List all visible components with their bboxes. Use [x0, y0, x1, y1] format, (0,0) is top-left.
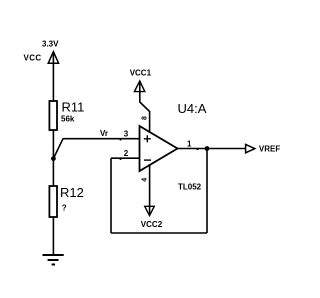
wire diagonal node to Vr: [53, 139, 63, 159]
pin 2 endpoint: [120, 158, 122, 160]
op-amp U4:A: [140, 126, 178, 171]
wire feedback left vertical: [110, 158, 112, 233]
resistor R12: [49, 186, 57, 217]
wire feedback right vertical: [206, 149, 208, 234]
pin 1 endpoint: [197, 148, 199, 150]
wire Vr to pin 3: [63, 138, 140, 140]
wire R11 to node: [52, 130, 54, 186]
svg-text:VCC: VCC: [24, 54, 42, 63]
svg-text:R11: R11: [62, 100, 85, 115]
svg-text:Vr: Vr: [100, 129, 108, 138]
wire R12 to ground: [52, 217, 54, 255]
svg-text:VREF: VREF: [259, 145, 280, 154]
plus sign: [144, 138, 151, 140]
wire to pin 2: [111, 157, 140, 159]
svg-text:3: 3: [124, 130, 129, 139]
node junction dot: [51, 156, 56, 161]
ground: [43, 255, 64, 265]
svg-text:U4:A: U4:A: [178, 101, 207, 116]
svg-text:R12: R12: [60, 185, 84, 200]
terminal VREF arrow: [246, 144, 255, 152]
resistor R11: [49, 101, 57, 130]
svg-text:VCC2: VCC2: [141, 220, 163, 229]
svg-text:8: 8: [142, 116, 149, 120]
wire pin 4 to VCC2: [149, 164, 151, 215]
svg-text:4: 4: [142, 178, 149, 182]
node output junction dot: [205, 146, 210, 151]
svg-text:2: 2: [124, 149, 129, 158]
svg-text:TL052: TL052: [178, 183, 202, 192]
power VCC1 symbol: [134, 81, 144, 92]
svg-text:1: 1: [187, 140, 192, 149]
svg-text:3.3V: 3.3V: [42, 40, 59, 49]
wire VCC1 to pin 8: [140, 82, 150, 134]
power VCC symbol: [48, 52, 58, 101]
svg-text:56k: 56k: [61, 115, 75, 124]
minus sign: [144, 159, 151, 161]
wire output pin 1: [178, 148, 247, 150]
wire feedback bottom: [111, 232, 207, 234]
svg-text:?: ?: [62, 203, 67, 212]
power VCC2 symbol: [145, 206, 155, 215]
svg-text:VCC1: VCC1: [130, 69, 152, 78]
pin 3 endpoint: [120, 139, 122, 141]
